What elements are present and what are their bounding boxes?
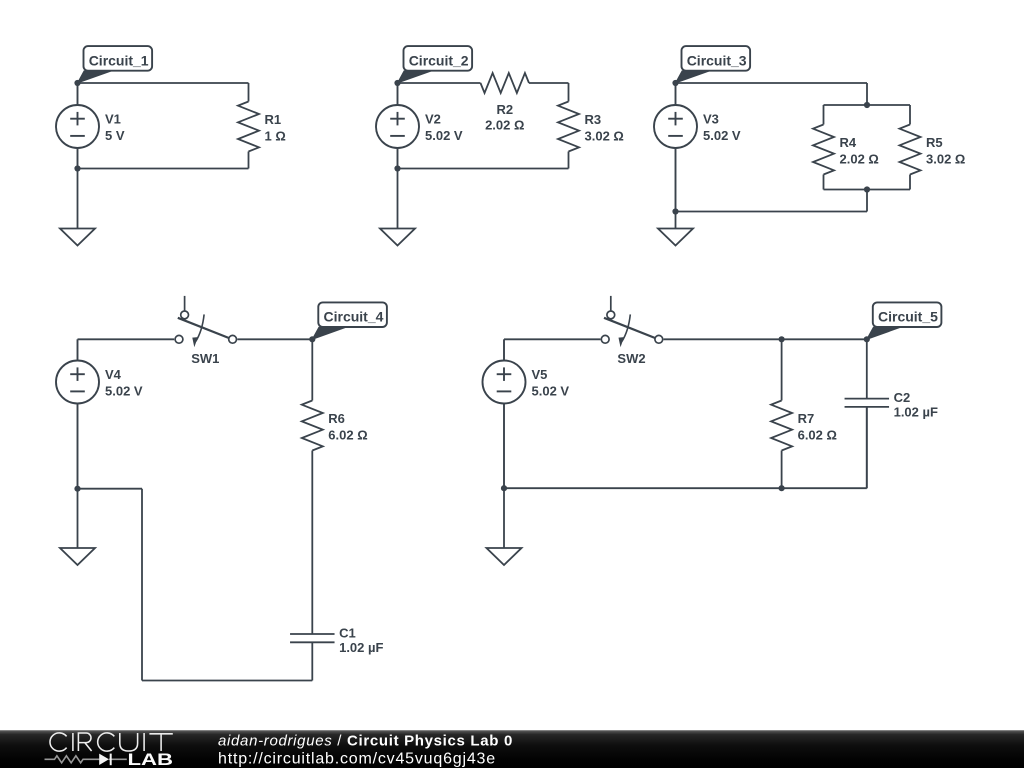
wire top rail circuit 3 [676,82,868,84]
wire R4 top lead [823,105,825,125]
svg-text:V1: V1 [105,112,121,127]
ground circuit 3 [658,212,693,246]
svg-text:2.02 Ω: 2.02 Ω [485,117,524,132]
wire top rail circuit 1 [78,82,249,84]
svg-text:SW2: SW2 [617,351,645,366]
svg-text:V5: V5 [532,367,548,382]
voltage source V3 5.02V [654,83,697,212]
junction node circuit 1 bottom [74,165,80,171]
voltage source V2 5.02V [376,83,419,169]
node label Circuit_1 [78,71,112,83]
capacitor C1 1.02uF [290,634,335,681]
wire R7 node to C2 node [782,338,867,340]
junction node R7 top [779,336,785,342]
junction node circuit 2 top [394,80,400,86]
resistor R2 2.02ohm [481,73,529,93]
svg-text:3.02 Ω: 3.02 Ω [585,129,624,144]
wire bottom rail circuit 5 [504,487,867,489]
svg-text:2.02 Ω: 2.02 Ω [840,152,879,167]
svg-text:V4: V4 [105,367,122,382]
wire bottom rail circuit 2 [398,168,569,170]
svg-text:1.02 µF: 1.02 µF [894,404,938,419]
node label Circuit_2 [398,71,432,83]
junction node C2 top [864,336,870,342]
resistor R7 6.02ohm [771,401,792,451]
wire R4 bottom lead [823,175,825,190]
wire R6 to C1 [311,451,313,635]
junction node parallel top [864,102,870,108]
svg-text:3.02 Ω: 3.02 Ω [926,152,965,167]
svg-text:aidan-rodrigues / Circuit Phys: aidan-rodrigues / Circuit Physics Lab 0 [218,732,513,749]
wire V5 to SW2 [504,338,600,340]
junction node circuit 1 top [74,80,80,86]
resistor R6 6.02ohm [302,401,323,451]
junction node circuit 5 bottom-left [501,485,507,491]
voltage source V4 5.02V [56,339,99,488]
ground circuit 1 [60,169,95,246]
wire R3 bottom lead [568,152,570,169]
wire down to parallel pair [866,83,868,105]
svg-text:5 V: 5 V [105,128,125,143]
wire down from parallel pair [866,190,868,212]
junction node circuit 3 bottom-left [672,208,678,214]
wire bottom rail circuit 4 [142,680,312,682]
svg-text:Circuit_3: Circuit_3 [687,52,747,68]
svg-text:R6: R6 [328,411,345,426]
logo CIRCUIT wordmark [50,733,173,751]
junction node parallel bottom [864,186,870,192]
svg-text:Circuit_1: Circuit_1 [89,52,149,68]
svg-text:LAB: LAB [128,750,174,768]
svg-text:1 Ω: 1 Ω [265,129,286,144]
junction node circuit 4 top [309,336,315,342]
wire parallel top bracket [824,104,911,106]
resistor R5 3.02ohm [900,125,921,175]
wire top rail right circuit 2 [529,82,569,84]
junction node R7 bottom [779,485,785,491]
svg-text:R7: R7 [798,411,815,426]
svg-text:R1: R1 [265,112,282,127]
wire bottom rail circuit 1 [78,168,249,170]
svg-text:6.02 Ω: 6.02 Ω [328,428,367,443]
resistor R3 3.02ohm [558,102,579,152]
svg-text:5.02 V: 5.02 V [532,384,570,399]
svg-text:Circuit_4: Circuit_4 [324,309,384,325]
junction node circuit 4 left [74,486,80,492]
junction node circuit 2 bottom [394,165,400,171]
wire SW2 to R7 node [664,338,782,340]
svg-text:5.02 V: 5.02 V [425,128,463,143]
svg-text:5.02 V: 5.02 V [105,384,143,399]
wire top rail left circuit 2 [398,82,481,84]
wire left bottom horizontal [78,488,143,490]
switch SW1 [175,296,236,347]
ground circuit 2 [380,169,415,246]
wire R7 bottom lead [781,451,783,489]
footer black bar [0,730,1024,768]
wire R7 top lead [781,339,783,400]
svg-text:Circuit_2: Circuit_2 [409,52,469,68]
svg-text:R5: R5 [926,135,943,150]
wire left bottom vertical [141,489,143,681]
wire R1 bottom lead [248,152,250,169]
svg-text:R3: R3 [585,112,602,127]
ground circuit 4 [60,489,95,565]
wire R1 top lead [248,83,250,102]
switch SW2 [601,296,662,347]
svg-text:5.02 V: 5.02 V [703,128,741,143]
svg-text:V2: V2 [425,112,441,127]
node label Circuit_5 [867,327,901,339]
wire SW1 to node [237,338,312,340]
node label Circuit_4 [312,327,346,339]
node label Circuit_3 [676,71,710,83]
svg-text:R2: R2 [496,102,513,117]
svg-text:V3: V3 [703,112,719,127]
voltage source V5 5.02V [483,339,526,488]
wire V4 to SW1 [78,338,175,340]
capacitor C2 1.02uF [845,339,890,488]
wire C2 to bottom rail corner [866,407,868,488]
wire bottom rail circuit 3 [676,211,868,213]
logo resistor-diode symbol [45,756,127,763]
svg-text:1.02 µF: 1.02 µF [339,640,383,655]
svg-text:6.02 Ω: 6.02 Ω [798,428,837,443]
svg-text:SW1: SW1 [191,351,219,366]
wire parallel bottom bracket [824,189,911,191]
resistor R4 2.02ohm [813,125,834,175]
svg-text:http://circuitlab.com/cv45vuq6: http://circuitlab.com/cv45vuq6gj43e [218,751,496,768]
svg-text:Circuit_5: Circuit_5 [878,309,938,325]
resistor R1 1ohm [238,102,259,152]
junction node circuit 3 top-left [672,80,678,86]
svg-text:R4: R4 [840,135,857,150]
voltage source V1 5V [56,83,99,169]
wire R5 top lead [909,105,911,125]
ground circuit 5 [487,488,522,565]
wire R3 top lead [568,83,570,102]
wire R6 top lead [311,339,313,400]
svg-text:C1: C1 [339,625,356,640]
wire R5 bottom lead [909,175,911,190]
svg-text:C2: C2 [894,390,911,405]
